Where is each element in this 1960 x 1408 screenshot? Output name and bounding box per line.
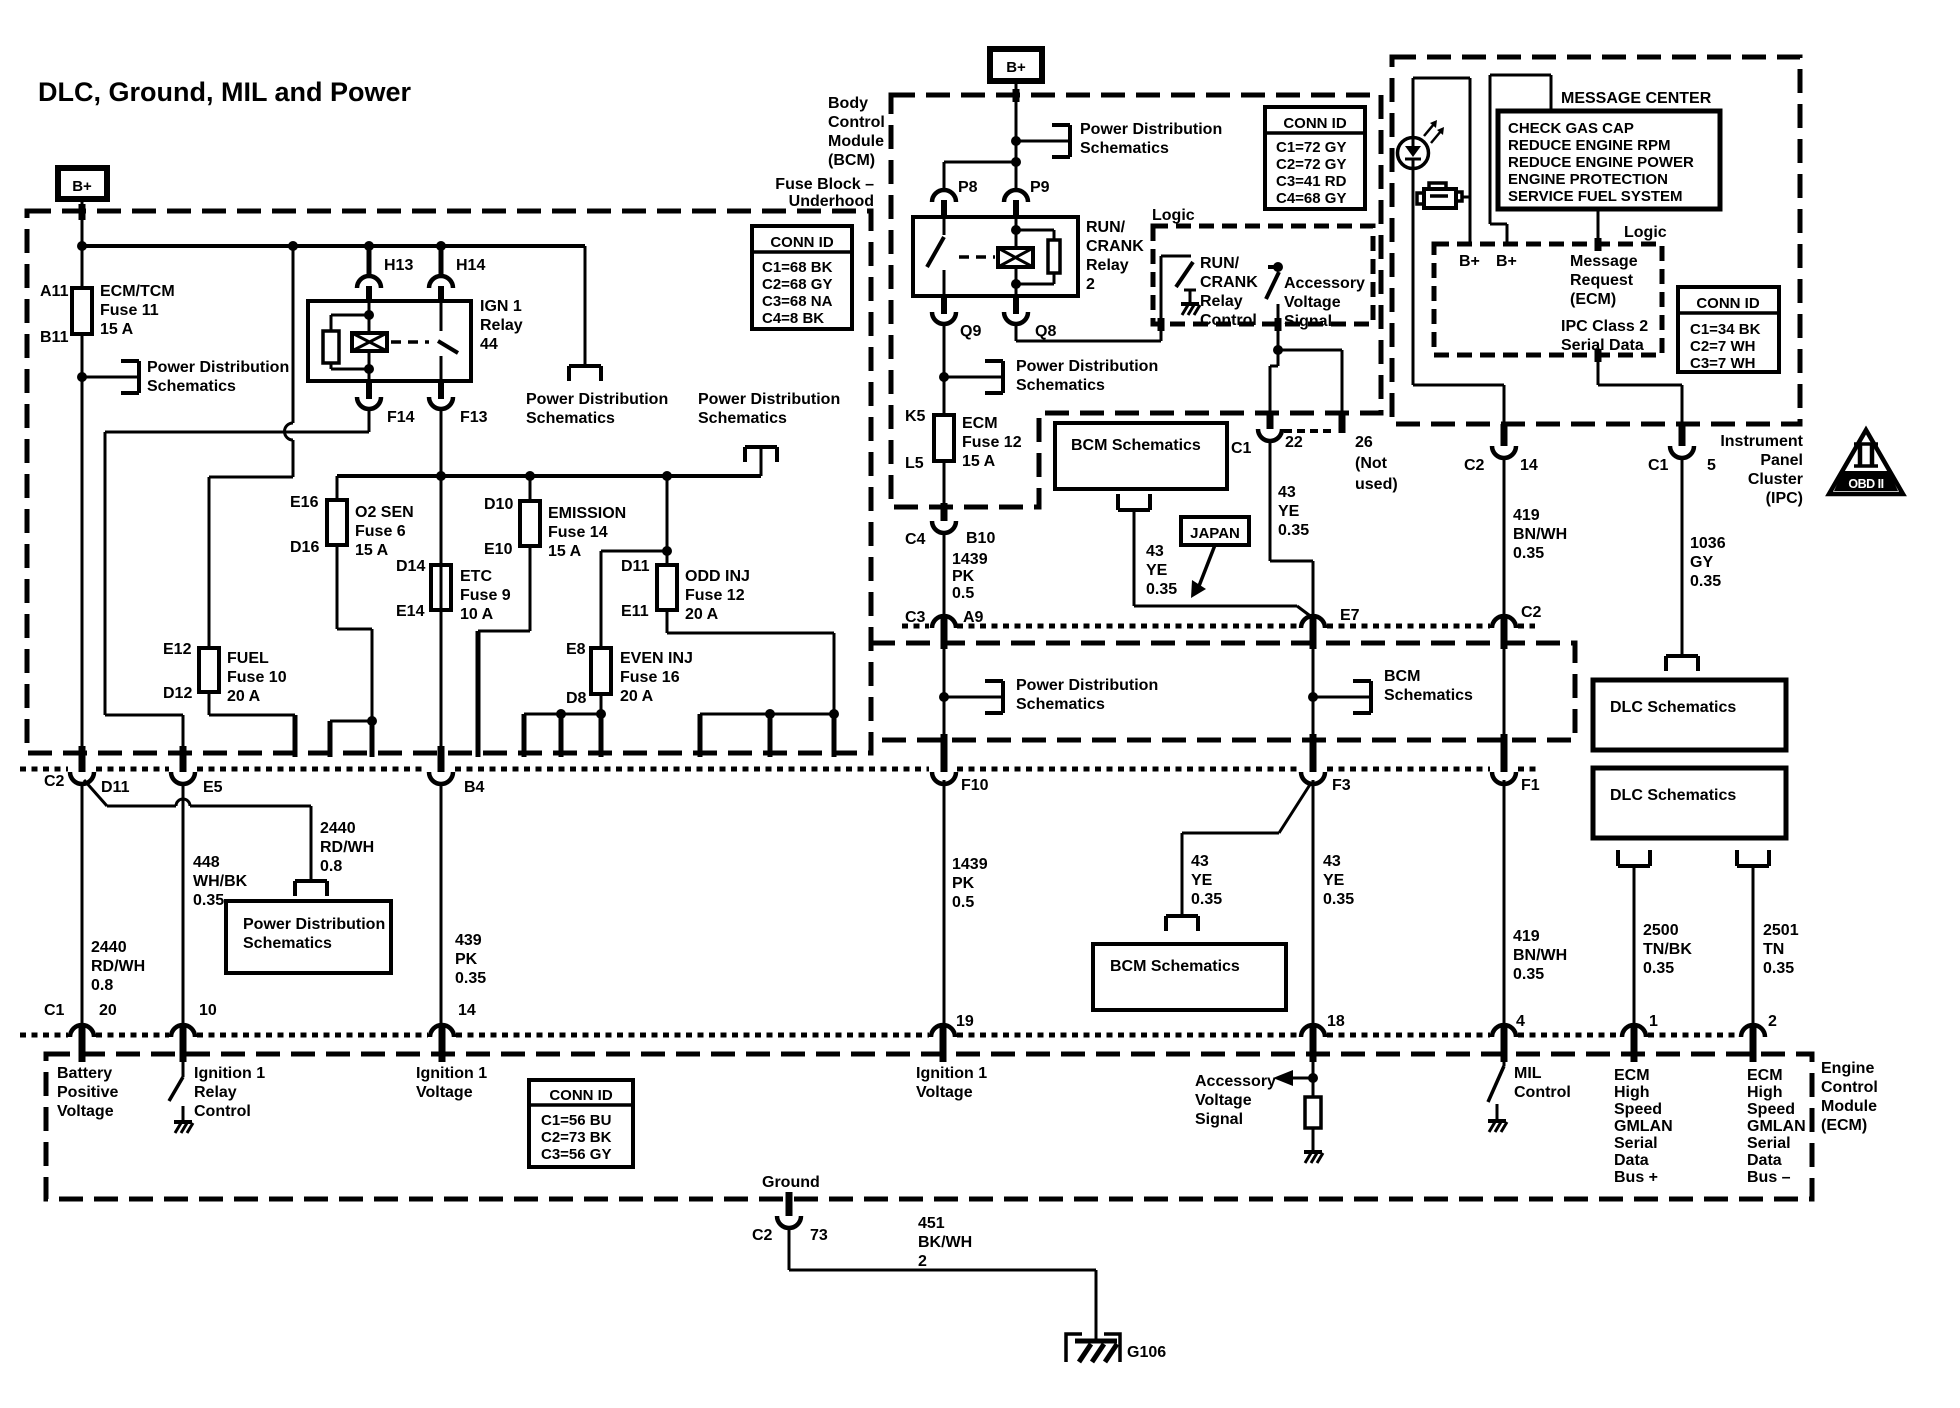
svg-text:Panel: Panel <box>1760 452 1803 469</box>
svg-text:0.8: 0.8 <box>91 977 113 994</box>
svg-text:EVEN INJ: EVEN INJ <box>620 650 693 667</box>
svg-text:High: High <box>1747 1084 1783 1101</box>
svg-text:C4=8 BK: C4=8 BK <box>762 310 824 327</box>
svg-text:1036: 1036 <box>1690 535 1726 552</box>
svg-text:G106: G106 <box>1127 1344 1166 1361</box>
svg-text:CONN ID: CONN ID <box>549 1087 613 1104</box>
svg-text:0.35: 0.35 <box>455 970 486 987</box>
svg-text:YE: YE <box>1191 872 1213 889</box>
svg-text:Accessory: Accessory <box>1284 275 1365 292</box>
svg-text:YE: YE <box>1146 562 1168 579</box>
svg-text:C4: C4 <box>905 531 926 548</box>
svg-text:0.35: 0.35 <box>1191 891 1222 908</box>
svg-text:Power Distribution: Power Distribution <box>698 391 840 408</box>
svg-text:CONN ID: CONN ID <box>1283 115 1347 132</box>
svg-text:IGN 1: IGN 1 <box>480 298 522 315</box>
svg-text:Ground: Ground <box>762 1174 820 1191</box>
svg-text:B4: B4 <box>464 779 485 796</box>
svg-text:Cluster: Cluster <box>1748 471 1803 488</box>
svg-text:4: 4 <box>1516 1013 1525 1030</box>
svg-text:C2=68 GY: C2=68 GY <box>762 276 832 293</box>
svg-text:Engine: Engine <box>1821 1060 1874 1077</box>
svg-text:Battery: Battery <box>57 1065 112 1082</box>
svg-text:Relay: Relay <box>1200 293 1243 310</box>
svg-text:Voltage: Voltage <box>416 1084 473 1101</box>
svg-text:Signal: Signal <box>1195 1111 1243 1128</box>
svg-text:P8: P8 <box>958 179 978 196</box>
svg-text:ECM: ECM <box>1747 1067 1783 1084</box>
svg-text:Ignition 1: Ignition 1 <box>194 1065 265 1082</box>
svg-text:E8: E8 <box>566 641 586 658</box>
svg-text:BCM: BCM <box>1384 668 1420 685</box>
svg-text:20 A: 20 A <box>227 688 261 705</box>
svg-text:D10: D10 <box>484 496 513 513</box>
svg-text:448: 448 <box>193 854 220 871</box>
svg-text:15 A: 15 A <box>962 453 996 470</box>
svg-text:Control: Control <box>194 1103 251 1120</box>
svg-text:C1: C1 <box>1648 457 1669 474</box>
svg-text:A9: A9 <box>963 609 984 626</box>
svg-text:18: 18 <box>1327 1013 1345 1030</box>
svg-text:GMLAN: GMLAN <box>1614 1118 1673 1135</box>
svg-text:GY: GY <box>1690 554 1713 571</box>
svg-text:C3=68 NA: C3=68 NA <box>762 293 833 310</box>
svg-text:26: 26 <box>1355 434 1373 451</box>
svg-text:Speed: Speed <box>1614 1101 1662 1118</box>
svg-text:Relay: Relay <box>194 1084 237 1101</box>
svg-text:IPC Class 2: IPC Class 2 <box>1561 318 1648 335</box>
svg-text:BCM Schematics: BCM Schematics <box>1110 958 1240 975</box>
svg-text:CONN ID: CONN ID <box>1696 295 1760 312</box>
svg-text:Fuse 10: Fuse 10 <box>227 669 287 686</box>
svg-text:F10: F10 <box>961 777 989 794</box>
svg-text:C2: C2 <box>1464 457 1485 474</box>
svg-text:Ignition 1: Ignition 1 <box>916 1065 987 1082</box>
svg-text:Power Distribution: Power Distribution <box>1016 358 1158 375</box>
svg-text:CRANK: CRANK <box>1086 238 1144 255</box>
svg-text:WH/BK: WH/BK <box>193 873 248 890</box>
svg-text:PK: PK <box>455 951 478 968</box>
svg-text:B+: B+ <box>1006 59 1026 76</box>
svg-text:C3: C3 <box>905 609 926 626</box>
svg-text:Signal: Signal <box>1284 313 1332 330</box>
svg-text:43: 43 <box>1278 484 1296 501</box>
svg-text:PK: PK <box>952 875 975 892</box>
svg-text:Serial: Serial <box>1614 1135 1658 1152</box>
svg-text:GMLAN: GMLAN <box>1747 1118 1806 1135</box>
svg-text:Power Distribution: Power Distribution <box>243 916 385 933</box>
svg-text:E16: E16 <box>290 494 319 511</box>
svg-text:SERVICE FUEL SYSTEM: SERVICE FUEL SYSTEM <box>1508 188 1683 205</box>
svg-text:Voltage: Voltage <box>1284 294 1341 311</box>
svg-text:Bus +: Bus + <box>1614 1169 1658 1186</box>
svg-text:Fuse 6: Fuse 6 <box>355 523 406 540</box>
svg-text:REDUCE ENGINE POWER: REDUCE ENGINE POWER <box>1508 154 1694 171</box>
svg-text:REDUCE ENGINE RPM: REDUCE ENGINE RPM <box>1508 137 1671 154</box>
svg-text:Logic: Logic <box>1152 207 1195 224</box>
svg-text:B+: B+ <box>1496 253 1517 270</box>
svg-text:Instrument: Instrument <box>1720 433 1803 450</box>
svg-text:C2=73 BK: C2=73 BK <box>541 1129 612 1146</box>
svg-text:2440: 2440 <box>91 939 127 956</box>
svg-text:44: 44 <box>480 336 498 353</box>
svg-text:Serial Data: Serial Data <box>1561 337 1644 354</box>
svg-text:ODD INJ: ODD INJ <box>685 568 750 585</box>
svg-text:20: 20 <box>99 1002 117 1019</box>
svg-text:419: 419 <box>1513 507 1540 524</box>
svg-text:20 A: 20 A <box>620 688 654 705</box>
svg-text:B11: B11 <box>40 329 69 346</box>
svg-text:Fuse 11: Fuse 11 <box>100 302 159 319</box>
svg-text:C4=68 GY: C4=68 GY <box>1276 190 1346 207</box>
svg-text:OBD II: OBD II <box>1848 477 1883 491</box>
svg-text:JAPAN: JAPAN <box>1190 525 1240 542</box>
svg-text:22: 22 <box>1285 434 1303 451</box>
svg-text:Serial: Serial <box>1747 1135 1791 1152</box>
svg-text:Power Distribution: Power Distribution <box>1016 677 1158 694</box>
svg-text:(ECM): (ECM) <box>1570 291 1616 308</box>
svg-text:Power Distribution: Power Distribution <box>526 391 668 408</box>
svg-text:Logic: Logic <box>1624 224 1667 241</box>
svg-text:E5: E5 <box>203 779 223 796</box>
svg-text:Voltage: Voltage <box>916 1084 973 1101</box>
svg-text:Ignition 1: Ignition 1 <box>416 1065 487 1082</box>
svg-text:D12: D12 <box>163 685 192 702</box>
svg-text:43: 43 <box>1146 543 1164 560</box>
svg-text:0.35: 0.35 <box>1278 522 1309 539</box>
svg-text:0.35: 0.35 <box>1763 960 1794 977</box>
svg-text:Accessory: Accessory <box>1195 1073 1276 1090</box>
svg-text:2500: 2500 <box>1643 922 1679 939</box>
svg-text:C2=72 GY: C2=72 GY <box>1276 156 1346 173</box>
svg-text:F3: F3 <box>1332 777 1351 794</box>
svg-text:Schematics: Schematics <box>243 935 332 952</box>
svg-text:C1: C1 <box>1231 440 1252 457</box>
svg-text:1439: 1439 <box>952 856 988 873</box>
svg-text:BCM Schematics: BCM Schematics <box>1071 437 1201 454</box>
svg-text:0.35: 0.35 <box>1643 960 1674 977</box>
svg-text:Data: Data <box>1747 1152 1782 1169</box>
svg-text:FUEL: FUEL <box>227 650 269 667</box>
svg-text:Voltage: Voltage <box>1195 1092 1252 1109</box>
svg-text:Schematics: Schematics <box>1016 696 1105 713</box>
svg-text:Q9: Q9 <box>960 323 981 340</box>
svg-text:Positive: Positive <box>57 1084 118 1101</box>
svg-text:Relay: Relay <box>1086 257 1129 274</box>
svg-text:439: 439 <box>455 932 482 949</box>
svg-text:2: 2 <box>1768 1013 1777 1030</box>
svg-text:H13: H13 <box>384 257 413 274</box>
svg-text:14: 14 <box>1520 457 1538 474</box>
svg-text:E10: E10 <box>484 541 513 558</box>
svg-text:C2=7 WH: C2=7 WH <box>1690 338 1755 355</box>
svg-text:Control: Control <box>1200 312 1257 329</box>
svg-text:0.8: 0.8 <box>320 858 342 875</box>
svg-text:H14: H14 <box>456 257 485 274</box>
svg-text:Control: Control <box>1514 1084 1571 1101</box>
svg-text:Fuse 14: Fuse 14 <box>548 524 608 541</box>
svg-text:Schematics: Schematics <box>1016 377 1105 394</box>
svg-text:Fuse 9: Fuse 9 <box>460 587 511 604</box>
svg-text:D8: D8 <box>566 690 587 707</box>
svg-text:2: 2 <box>1086 276 1095 293</box>
svg-text:419: 419 <box>1513 928 1540 945</box>
svg-text:D14: D14 <box>396 558 425 575</box>
svg-text:MESSAGE CENTER: MESSAGE CENTER <box>1561 90 1712 107</box>
svg-text:20 A: 20 A <box>685 606 719 623</box>
svg-text:E11: E11 <box>621 603 649 620</box>
svg-text:Bus –: Bus – <box>1747 1169 1791 1186</box>
svg-text:Q8: Q8 <box>1035 323 1056 340</box>
svg-text:15 A: 15 A <box>548 543 582 560</box>
svg-text:CONN ID: CONN ID <box>770 234 834 251</box>
svg-text:DLC Schematics: DLC Schematics <box>1610 699 1736 716</box>
svg-text:CHECK GAS CAP: CHECK GAS CAP <box>1508 120 1634 137</box>
svg-text:1439: 1439 <box>952 551 988 568</box>
svg-text:F14: F14 <box>387 409 415 426</box>
svg-text:C1=34 BK: C1=34 BK <box>1690 321 1761 338</box>
svg-text:2: 2 <box>918 1253 927 1270</box>
svg-text:CRANK: CRANK <box>1200 274 1258 291</box>
svg-text:RUN/: RUN/ <box>1200 255 1240 272</box>
svg-text:(BCM): (BCM) <box>828 152 875 169</box>
svg-text:Underhood: Underhood <box>789 193 874 210</box>
svg-text:DLC Schematics: DLC Schematics <box>1610 787 1736 804</box>
svg-text:451: 451 <box>918 1215 945 1232</box>
svg-text:Voltage: Voltage <box>57 1103 114 1120</box>
svg-text:L5: L5 <box>905 455 924 472</box>
svg-text:RUN/: RUN/ <box>1086 219 1126 236</box>
svg-text:P9: P9 <box>1030 179 1050 196</box>
svg-text:5: 5 <box>1707 457 1716 474</box>
svg-text:15 A: 15 A <box>355 542 389 559</box>
svg-text:C2: C2 <box>44 773 65 790</box>
svg-text:Control: Control <box>828 114 885 131</box>
svg-text:TN/BK: TN/BK <box>1643 941 1692 958</box>
svg-text:D11: D11 <box>101 779 130 796</box>
svg-text:Power Distribution: Power Distribution <box>1080 121 1222 138</box>
svg-text:Fuse 12: Fuse 12 <box>685 587 745 604</box>
svg-text:C1=68 BK: C1=68 BK <box>762 259 833 276</box>
svg-text:Module: Module <box>828 133 884 150</box>
svg-text:A11: A11 <box>40 283 69 300</box>
svg-text:EMISSION: EMISSION <box>548 505 626 522</box>
svg-text:Fuse Block –: Fuse Block – <box>775 176 874 193</box>
svg-text:YE: YE <box>1278 503 1300 520</box>
svg-text:D11: D11 <box>621 558 650 575</box>
svg-text:High: High <box>1614 1084 1650 1101</box>
svg-text:0.35: 0.35 <box>1690 573 1721 590</box>
svg-text:D16: D16 <box>290 539 319 556</box>
svg-text:ETC: ETC <box>460 568 492 585</box>
svg-text:2440: 2440 <box>320 820 356 837</box>
svg-text:ENGINE PROTECTION: ENGINE PROTECTION <box>1508 171 1668 188</box>
svg-text:E7: E7 <box>1340 607 1360 624</box>
svg-text:Fuse 16: Fuse 16 <box>620 669 680 686</box>
svg-text:C2: C2 <box>1521 604 1542 621</box>
svg-text:E12: E12 <box>163 641 192 658</box>
svg-text:C1=72 GY: C1=72 GY <box>1276 139 1346 156</box>
svg-text:(IPC): (IPC) <box>1766 490 1803 507</box>
svg-text:Module: Module <box>1821 1098 1877 1115</box>
svg-text:0.35: 0.35 <box>193 892 224 909</box>
svg-text:BK/WH: BK/WH <box>918 1234 972 1251</box>
svg-text:(ECM): (ECM) <box>1821 1117 1867 1134</box>
svg-text:43: 43 <box>1323 853 1341 870</box>
svg-text:(Not: (Not <box>1355 455 1388 472</box>
svg-text:E14: E14 <box>396 603 425 620</box>
svg-text:10: 10 <box>199 1002 217 1019</box>
svg-text:43: 43 <box>1191 853 1209 870</box>
svg-text:10 A: 10 A <box>460 606 494 623</box>
svg-text:K5: K5 <box>905 408 926 425</box>
svg-text:C3=56 GY: C3=56 GY <box>541 1146 611 1163</box>
svg-text:C1: C1 <box>44 1002 65 1019</box>
svg-text:B+: B+ <box>72 178 92 195</box>
svg-text:DLC, Ground, MIL and Power: DLC, Ground, MIL and Power <box>38 77 411 107</box>
svg-text:Schematics: Schematics <box>526 410 615 427</box>
svg-text:Schematics: Schematics <box>698 410 787 427</box>
svg-text:F1: F1 <box>1521 777 1540 794</box>
svg-text:0.35: 0.35 <box>1513 545 1544 562</box>
svg-text:0.35: 0.35 <box>1513 966 1544 983</box>
svg-text:used): used) <box>1355 476 1398 493</box>
svg-text:MIL: MIL <box>1514 1065 1542 1082</box>
svg-text:ECM/TCM: ECM/TCM <box>100 283 175 300</box>
svg-text:BN/WH: BN/WH <box>1513 947 1567 964</box>
svg-text:Power Distribution: Power Distribution <box>147 359 289 376</box>
svg-text:C2: C2 <box>752 1227 773 1244</box>
svg-text:Message: Message <box>1570 253 1638 270</box>
svg-text:Control: Control <box>1821 1079 1878 1096</box>
svg-text:Relay: Relay <box>480 317 523 334</box>
svg-text:RD/WH: RD/WH <box>91 958 145 975</box>
svg-text:BN/WH: BN/WH <box>1513 526 1567 543</box>
svg-text:0.35: 0.35 <box>1323 891 1354 908</box>
svg-text:Schematics: Schematics <box>1080 140 1169 157</box>
svg-text:Data: Data <box>1614 1152 1649 1169</box>
svg-text:Speed: Speed <box>1747 1101 1795 1118</box>
svg-text:Schematics: Schematics <box>1384 687 1473 704</box>
svg-text:1: 1 <box>1649 1013 1658 1030</box>
svg-text:Schematics: Schematics <box>147 378 236 395</box>
svg-text:C3=7 WH: C3=7 WH <box>1690 355 1755 372</box>
svg-text:ECM: ECM <box>962 415 998 432</box>
svg-text:Request: Request <box>1570 272 1634 289</box>
svg-text:B10: B10 <box>966 530 995 547</box>
svg-text:C3=41 RD: C3=41 RD <box>1276 173 1347 190</box>
svg-text:YE: YE <box>1323 872 1345 889</box>
svg-text:ECM: ECM <box>1614 1067 1650 1084</box>
svg-text:Fuse 12: Fuse 12 <box>962 434 1022 451</box>
svg-text:TN: TN <box>1763 941 1784 958</box>
svg-text:Body: Body <box>828 95 868 112</box>
svg-text:73: 73 <box>810 1227 828 1244</box>
svg-text:14: 14 <box>458 1002 476 1019</box>
svg-text:0.35: 0.35 <box>1146 581 1177 598</box>
svg-text:19: 19 <box>956 1013 974 1030</box>
svg-text:15 A: 15 A <box>100 321 134 338</box>
svg-text:PK: PK <box>952 568 975 585</box>
svg-text:0.5: 0.5 <box>952 894 974 911</box>
svg-text:0.5: 0.5 <box>952 585 974 602</box>
svg-text:RD/WH: RD/WH <box>320 839 374 856</box>
svg-text:O2 SEN: O2 SEN <box>355 504 414 521</box>
svg-text:C1=56 BU: C1=56 BU <box>541 1112 611 1129</box>
svg-text:2501: 2501 <box>1763 922 1799 939</box>
svg-text:B+: B+ <box>1459 253 1480 270</box>
svg-text:F13: F13 <box>460 409 488 426</box>
